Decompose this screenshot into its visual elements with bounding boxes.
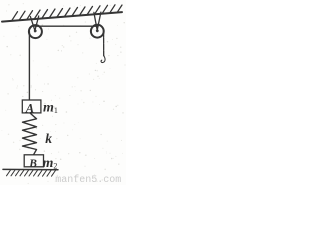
pulley P2 axle [96,29,99,32]
hook at string end [101,56,105,63]
ground hatching [7,170,56,176]
ceiling hatching [12,5,122,20]
string over pulleys (horizontal) [35,25,98,27]
block B [24,155,43,167]
ground line [3,168,58,170]
svg-text:manfen5.com: manfen5.com [55,174,121,185]
svg-text:A: A [25,101,34,115]
block A [22,100,41,113]
string pulley1 to block A [28,32,30,101]
pulley P1 axle [34,30,37,33]
pulley P2 bracket [94,12,101,30]
pulley P1 wheel [29,25,42,38]
pulley P1 bracket [30,16,38,31]
svg-text:k: k [45,131,52,146]
paper background [0,0,126,185]
ceiling line [2,12,122,22]
string pulley2 down [103,31,105,56]
spring k [23,113,37,155]
pulley P2 wheel [91,25,104,38]
svg-text:B: B [28,158,37,170]
